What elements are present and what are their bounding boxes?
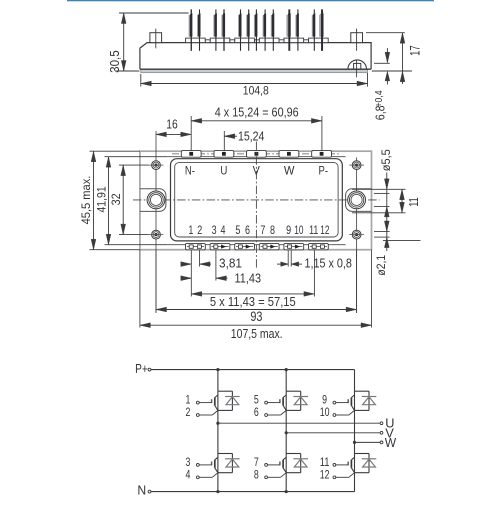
top view: lid outer <box>171 159 343 241</box>
svg-text:V: V <box>253 164 261 178</box>
svg-text:4 x 15,24 = 60,96: 4 x 15,24 = 60,96 <box>215 105 299 120</box>
pin 4 aux emitter lead <box>196 476 199 479</box>
transistor T11 (IGBT) <box>354 454 356 473</box>
svg-text:P-: P- <box>319 164 329 178</box>
svg-text:17: 17 <box>407 45 422 56</box>
dimension 104,8 baseplate length <box>141 83 368 85</box>
bottom extension lines <box>190 250 192 296</box>
svg-text:11: 11 <box>406 197 421 207</box>
wire: cell right edge / diode branch <box>368 454 370 473</box>
svg-text:N-: N- <box>185 164 195 178</box>
svg-text:9: 9 <box>286 223 291 237</box>
svg-text:U: U <box>220 164 227 178</box>
wire: leg2 phase drop <box>285 410 287 453</box>
dimension 1,15 x 0,8 pin section <box>277 263 288 265</box>
terminal circle V <box>380 431 383 434</box>
svg-text:104,8: 104,8 <box>243 84 269 98</box>
svg-text:11: 11 <box>309 223 318 237</box>
side view: pins and terminal blades <box>189 15 190 37</box>
diode D9 (antiparallel) <box>362 396 377 398</box>
top view: left hole axis line <box>155 131 157 313</box>
terminal circle N <box>148 490 151 493</box>
wire: cell bottom rail <box>355 472 370 474</box>
top view: case outline 41,91 <box>167 156 345 158</box>
dimension 45,5 max module width <box>93 151 95 250</box>
decor <box>67 0 434 1</box>
svg-text:1: 1 <box>188 223 193 237</box>
svg-text:3: 3 <box>212 223 217 237</box>
pin 1 gate lead <box>196 401 199 404</box>
svg-text:12: 12 <box>320 468 330 482</box>
pin 5 gate lead <box>265 401 268 404</box>
wire: cell right edge / diode branch <box>300 454 302 473</box>
pin 9 gate lead <box>333 401 336 404</box>
wire: N rail <box>151 491 355 493</box>
dimension 30,5 overall height <box>123 13 125 71</box>
svg-text:8: 8 <box>254 468 259 482</box>
svg-text:6: 6 <box>254 405 259 419</box>
top view: right mounting pocket <box>346 189 372 212</box>
side view: module body outline <box>140 43 371 70</box>
svg-text:2: 2 <box>197 223 202 237</box>
wire: W output <box>355 441 381 443</box>
wire: cell top rail x=217.9 <box>218 390 233 392</box>
svg-text:41,91: 41,91 <box>94 186 108 212</box>
side view: baseplate <box>141 69 368 72</box>
dimension 3,81 pin spacing <box>181 263 192 265</box>
wire: cell right edge / diode branch <box>231 454 233 473</box>
pin 12 aux emitter lead <box>333 476 336 479</box>
side view: bushing insert square <box>354 63 361 69</box>
svg-text:45,5 max.: 45,5 max. <box>79 176 93 225</box>
node: N leg1 <box>216 490 219 493</box>
diode D7 (antiparallel) <box>293 458 308 460</box>
svg-text:10: 10 <box>294 223 303 237</box>
node: N leg2 <box>285 490 288 493</box>
svg-text:8: 8 <box>270 223 275 237</box>
wire: leg2 lower drop <box>285 473 287 492</box>
wire: cell top rail x=286.2 <box>286 390 301 392</box>
top view: right hole axis line <box>356 158 358 313</box>
dimension 93 mounting pitch <box>156 309 357 311</box>
side view: body bottom edge <box>140 68 371 70</box>
side view: left screw axis centerline <box>155 29 157 49</box>
wire: cell bottom rail <box>218 409 233 411</box>
top view: horizontal centerline <box>133 199 380 201</box>
wire: cell top rail x=354.5 <box>355 453 370 455</box>
pin 7 gate lead <box>265 464 268 467</box>
svg-text:ø5,5: ø5,5 <box>379 149 393 171</box>
side view: left screw boss M4 <box>150 33 162 43</box>
diode D5 (antiparallel) <box>293 396 308 398</box>
svg-text:5: 5 <box>235 223 240 237</box>
wire: cell bottom rail <box>286 409 301 411</box>
wire: cell top rail x=217.9 <box>218 453 233 455</box>
svg-text:11,43: 11,43 <box>235 272 262 286</box>
wire: leg3 lower drop <box>354 473 356 492</box>
pin 3 gate lead <box>196 464 199 467</box>
side view: collar spacers <box>205 40 210 43</box>
diode D1 (antiparallel) <box>225 396 240 398</box>
wire: leg3 upper drop <box>354 370 356 392</box>
node: P+ to leg2 <box>285 368 288 371</box>
svg-text:4: 4 <box>186 468 191 482</box>
dimension 11,43 pair pitch <box>181 277 192 279</box>
dimension 16 <box>156 133 191 135</box>
side view: mounting bushing dome <box>348 60 367 69</box>
svg-text:N: N <box>137 482 146 497</box>
wire: P+ rail <box>151 369 355 371</box>
dimension 17 body height <box>402 33 404 84</box>
dimension 4 x 15,24 = 60,96 terminal pitch <box>191 120 322 122</box>
pin 8 aux emitter lead <box>265 476 268 479</box>
wire: leg1 lower drop <box>217 473 219 492</box>
wire: cell right edge / diode branch <box>368 391 370 410</box>
svg-text:10: 10 <box>320 405 330 419</box>
wire: leg3 phase drop <box>354 410 356 453</box>
wire: leg1 phase drop <box>217 410 219 453</box>
wire: leg1 upper drop <box>217 370 219 392</box>
wire: cell top rail x=354.5 <box>355 390 370 392</box>
transistor T5 (IGBT) <box>285 391 287 410</box>
side view: right screw axis centerline <box>356 29 358 51</box>
dimension 5 x 11,43 = 57,15 <box>191 293 314 295</box>
svg-text:32: 32 <box>109 193 123 205</box>
diode D11 (antiparallel) <box>362 458 377 460</box>
top view: pin slots bottom row <box>186 243 206 249</box>
node: U tap <box>216 422 219 425</box>
side view: right screw boss M4 <box>351 33 363 43</box>
top view: slot row centerline top <box>172 153 340 155</box>
transistor T7 (IGBT) <box>285 454 287 473</box>
top view: flange outline <box>140 151 372 250</box>
svg-text:2: 2 <box>186 405 191 419</box>
svg-text:30,5: 30,5 <box>107 50 122 73</box>
top view: lid inner face <box>175 163 338 237</box>
node: V tap <box>285 431 288 434</box>
svg-text:6: 6 <box>245 223 250 237</box>
svg-text:W: W <box>385 435 397 450</box>
dimension 15,24 <box>224 134 235 139</box>
svg-text:W: W <box>284 164 295 178</box>
wire: leg2 upper drop <box>285 370 287 392</box>
svg-text:12: 12 <box>320 223 329 237</box>
top view: left mounting pocket <box>140 189 166 212</box>
svg-text:1,15 x 0,8: 1,15 x 0,8 <box>304 257 352 271</box>
svg-text:3,81: 3,81 <box>219 257 242 271</box>
top view: corner holes o2,1 <box>152 161 161 170</box>
node: W tap <box>353 441 356 444</box>
dimension 41,91 case width <box>108 157 110 245</box>
transistor T9 (IGBT) <box>354 391 356 410</box>
svg-text:+0,4: +0,4 <box>374 90 385 107</box>
wire: cell bottom rail <box>218 472 233 474</box>
svg-text:107,5 max.: 107,5 max. <box>231 326 283 341</box>
svg-text:ø2,1: ø2,1 <box>374 255 388 276</box>
svg-text:16: 16 <box>166 117 178 132</box>
terminal circle P+ <box>148 368 151 371</box>
svg-text:5 x 11,43 = 57,15: 5 x 11,43 = 57,15 <box>210 294 296 309</box>
top view: vertical centerline <box>255 142 257 269</box>
pin 6 aux emitter lead <box>265 414 268 417</box>
wire: cell bottom rail <box>286 472 301 474</box>
pin 11 gate lead <box>333 464 336 467</box>
svg-text:4: 4 <box>221 223 226 237</box>
wire: V output <box>286 432 380 434</box>
dimension 6,8+0,4 bushing standoff <box>386 48 388 62</box>
top view: left mounting hole o5,5 <box>147 191 165 209</box>
pin 2 aux emitter lead <box>196 414 199 417</box>
wire: cell right edge / diode branch <box>231 391 233 410</box>
terminal circle W <box>380 441 383 444</box>
diode D3 (antiparallel) <box>225 458 240 460</box>
svg-text:7: 7 <box>260 223 265 237</box>
top view: right mounting hole o5,5 <box>348 191 366 209</box>
extension lines right side <box>352 188 406 190</box>
svg-text:15,24: 15,24 <box>238 129 265 144</box>
transistor T3 (IGBT) <box>217 454 219 473</box>
wire: cell top rail x=286.2 <box>286 453 301 455</box>
top view: terminal slots N- U V W P- <box>181 151 201 158</box>
dimension 11 pocket width <box>401 189 403 213</box>
transistor T1 (IGBT) <box>217 391 219 410</box>
svg-text:93: 93 <box>250 309 262 324</box>
wire: cell right edge / diode branch <box>300 391 302 410</box>
dimension 107,5 max overall length <box>140 324 372 326</box>
wire: U output <box>218 422 380 424</box>
pin 10 aux emitter lead <box>333 414 336 417</box>
wire: cell bottom rail <box>355 409 370 411</box>
terminal circle U <box>380 422 383 425</box>
svg-text:P+: P+ <box>135 361 148 376</box>
side view: pin collars <box>186 38 206 43</box>
dimension 32 corner hole pitch <box>122 165 124 235</box>
node: P+ to leg1 <box>216 368 219 371</box>
